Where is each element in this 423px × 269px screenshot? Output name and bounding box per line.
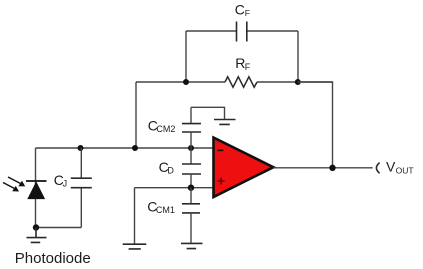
wire: CCM2 ground link (y=107.3, x=191..224.5 then down): [191, 107, 225, 119]
wire: RF horizontal left segment (y=82, x=136..225): [136, 81, 225, 83]
node: feedback left junction (186,82): [183, 79, 189, 85]
label VOUT: [386, 159, 414, 176]
resistor RF zigzag: [225, 77, 257, 87]
capacitor CF plates: [237, 22, 247, 42]
wire: CD bottom lead (x=191, y=174..187.7): [190, 174, 192, 188]
wire: CCM1 ground lead (x=191, y=212.9..243): [190, 213, 192, 243]
svg-text:F: F: [245, 8, 250, 18]
svg-text:F: F: [245, 62, 251, 72]
wire: output feedback riser (x=332.5, y=82..167.8): [298, 82, 333, 168]
svg-text:OUT: OUT: [396, 165, 414, 175]
ground: non-inverting input ground: [123, 244, 147, 249]
wire: CF right vertical (x=298, y=31..82): [297, 31, 299, 82]
node: feedback right junction (297.8,82): [295, 79, 301, 85]
node: output junction (332.5,167.8): [329, 165, 335, 171]
wire: RF horizontal right segment (y=82, x=257..332.5): [257, 81, 333, 83]
svg-text:J: J: [63, 179, 68, 189]
wire: CCM2 top lead (x=191, y=107.3..123.4): [190, 107, 192, 123]
ground: photodiode ground: [27, 228, 47, 243]
ground: CCM2 ground: [214, 120, 236, 125]
svg-text:V: V: [386, 159, 396, 175]
svg-text:CM2: CM2: [156, 124, 175, 134]
wire: non-inverting ground drop (x=134.5, y=187.7..243.9): [134, 188, 136, 244]
capacitor CD plates: [182, 164, 201, 174]
capacitor CJ plates: [71, 178, 92, 188]
wire: CF left vertical (x=186, y=31..82): [185, 31, 187, 82]
node: CJ top junction (80.5,148): [78, 145, 84, 151]
svg-text:D: D: [167, 165, 174, 175]
wire: output (y=167.8, x=273.4..372.7): [273, 167, 372, 169]
wire: CCM2 bottom lead (x=191, y=132..148): [190, 132, 192, 148]
label RF: [235, 55, 251, 72]
light arrow 2 into photodiode: [3, 183, 19, 192]
label CJ: [54, 172, 67, 189]
output terminal arc: [376, 163, 379, 174]
op-amp U1 (red triangle): [214, 138, 274, 197]
light arrow 1 into photodiode: [8, 177, 25, 186]
node: capacitor chain bottom junction (191,187.7): [188, 185, 194, 191]
svg-text:R: R: [235, 55, 245, 71]
wire: feedback drop to inverting input (x=136, y=82..148): [135, 82, 137, 148]
svg-text:C: C: [235, 1, 245, 17]
label CD: [159, 159, 175, 176]
op-amp minus sign: [218, 149, 224, 151]
node: feedback tap junction (135,148): [132, 145, 138, 151]
op-amp plus sign: [218, 178, 225, 185]
wire: CCM1 top lead (x=191, y=187.7..203.6): [190, 188, 192, 204]
wire: CD top lead (x=191, y=148..163.8): [190, 148, 192, 164]
node: photodiode bottom junction (36,227.5): [33, 224, 39, 230]
wire: inverting input line (y=148, x=35.5..213.5): [36, 147, 214, 149]
label CF: [235, 1, 250, 18]
svg-text:Photodiode: Photodiode: [15, 250, 91, 267]
wire: photodiode bottom wire (y=227.5, x=35.5..81.3): [36, 227, 82, 229]
wire: CF top branch (y=31, from x=186 to left plate, right plate to x=298): [186, 30, 298, 32]
capacitor CCM1 plates: [182, 204, 200, 213]
ground: CCM1 ground: [181, 243, 203, 248]
capacitor CCM2 plates: [182, 124, 201, 132]
svg-text:CM1: CM1: [156, 205, 175, 215]
label CCM1: [147, 199, 175, 216]
node: capacitor chain top junction (191,148): [188, 145, 194, 151]
photodiode D1 (cathode bar + filled triangle): [26, 181, 47, 199]
label Photodiode: [15, 250, 91, 267]
wire: CJ branch vertical (x=81.3, y=148..178 and 187.8..227.5): [80, 148, 82, 228]
label CCM2: [148, 118, 176, 135]
wire: non-inverting input line (y=187.7, x=134.5..213.5): [135, 187, 214, 189]
wire: photodiode left vertical (x=35.5, y=148..227.5): [35, 148, 37, 228]
